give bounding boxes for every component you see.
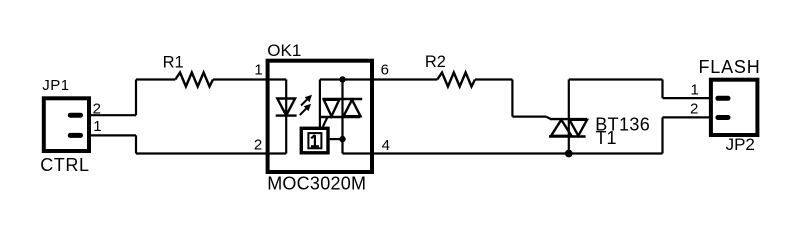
junction dot gate/MT xyxy=(339,136,345,142)
svg-text:6: 6 xyxy=(381,61,389,78)
wire R2 to corner xyxy=(475,78,512,80)
triac T1 vertical xyxy=(568,80,570,154)
gate box outer xyxy=(301,128,328,153)
wire JP1 pin2 horizontal xyxy=(89,114,136,116)
triac T1 top bar xyxy=(550,118,587,120)
triac T1 right triangle xyxy=(570,120,588,136)
wire to OK1 pin2 xyxy=(136,152,286,154)
svg-text:MOC3020M: MOC3020M xyxy=(267,174,366,194)
triac T1 left triangle xyxy=(551,120,572,136)
svg-text:T1: T1 xyxy=(596,128,617,148)
LED vertical wire xyxy=(285,80,287,154)
gate box inner xyxy=(308,133,321,148)
wire to T1 gate xyxy=(512,115,546,117)
opto triac left triangle xyxy=(324,100,339,116)
junction dot pin6/triac xyxy=(339,76,345,82)
svg-text:1: 1 xyxy=(93,118,101,135)
connector JP2 xyxy=(711,80,758,135)
wire corner drop xyxy=(511,80,513,117)
T1 gate diagonal xyxy=(546,117,551,120)
resistor R1 xyxy=(175,73,213,87)
opto triac top bar xyxy=(323,98,363,100)
resistor R2 xyxy=(437,73,475,87)
LED light arrow lower xyxy=(300,104,311,115)
wire OK1 pin6 rail xyxy=(320,78,437,80)
JP1 pin stub 2 xyxy=(70,113,80,118)
svg-text:CTRL: CTRL xyxy=(40,155,89,175)
wire JP1 pin1 horizontal xyxy=(89,134,136,136)
JP1 pin stub 1 xyxy=(70,133,80,138)
svg-text:4: 4 xyxy=(382,137,390,154)
wire to JP2 pin1 xyxy=(663,97,713,99)
wire opto triac center vertical xyxy=(341,80,343,140)
gate box digit 1 xyxy=(311,135,319,146)
svg-text:R1: R1 xyxy=(163,53,184,71)
svg-text:OK1: OK1 xyxy=(267,41,301,60)
opto triac bottom bar xyxy=(321,116,361,118)
LED light arrow upper xyxy=(301,95,312,106)
wire to R1 xyxy=(136,78,175,80)
wire vertical from pin6 rail to gate box xyxy=(319,80,321,128)
svg-text:JP1: JP1 xyxy=(42,77,69,94)
box OK1 xyxy=(268,61,372,172)
JP2 pin stub 1 xyxy=(718,96,728,101)
svg-text:1: 1 xyxy=(254,61,262,78)
svg-text:R2: R2 xyxy=(425,53,446,71)
wire gate box to triac vertical xyxy=(330,138,343,140)
opto triac gate diagonal xyxy=(323,117,328,127)
junction dot T1 MT2 xyxy=(565,150,573,158)
wire JP1 pin1 drop xyxy=(135,135,137,153)
opto triac right triangle xyxy=(344,100,361,116)
svg-text:2: 2 xyxy=(690,101,698,118)
JP2 pin stub 2 xyxy=(718,115,728,120)
svg-text:2: 2 xyxy=(254,136,262,153)
wire JP1 pin2 riser xyxy=(135,80,137,116)
wire pin4 rail to JP2 branch xyxy=(343,152,663,154)
wire JP2 pin2 drop xyxy=(661,117,663,153)
triac T1 bottom bar xyxy=(549,135,586,137)
svg-text:1: 1 xyxy=(691,81,699,98)
wire JP2 pin2 horizontal xyxy=(663,116,713,118)
connector JP1 xyxy=(44,98,89,151)
svg-text:JP2: JP2 xyxy=(726,135,755,154)
LED cathode bar xyxy=(276,114,297,116)
LED D of OK1 xyxy=(277,99,295,116)
wire T1 top to JP2 jog xyxy=(569,78,663,80)
wire jog down xyxy=(661,80,663,99)
wire down to pin4 rail xyxy=(341,139,343,153)
svg-text:FLASH: FLASH xyxy=(699,57,761,77)
wire R1 to OK1 pin1 xyxy=(213,78,286,80)
